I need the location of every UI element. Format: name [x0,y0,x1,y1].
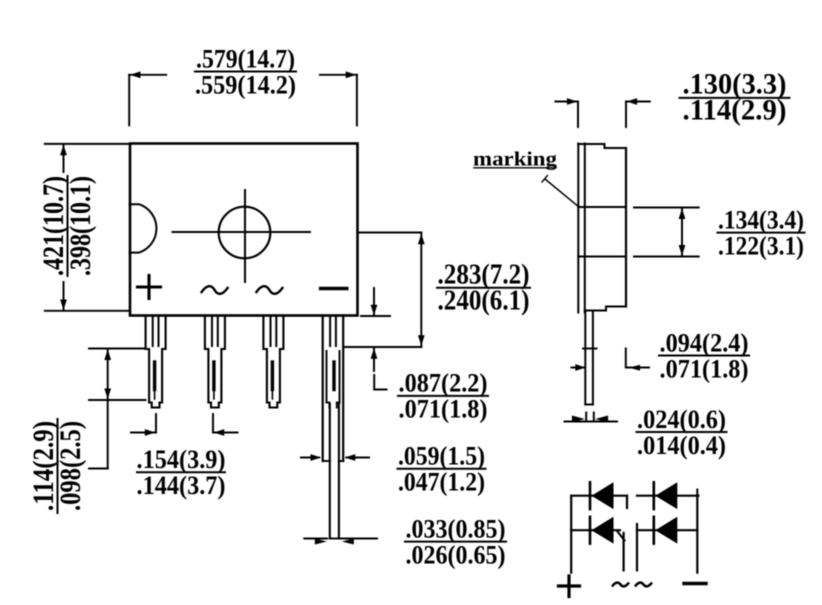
svg-text:.122(3.1): .122(3.1) [718,230,804,260]
svg-text:.026(0.65): .026(0.65) [406,539,506,569]
svg-text:.144(3.7): .144(3.7) [137,470,226,500]
svg-text:.098(2.5): .098(2.5) [54,421,87,511]
svg-text:.114(2.9): .114(2.9) [683,95,787,127]
svg-text:.398(10.1): .398(10.1) [64,176,97,276]
svg-text:.071(1.8): .071(1.8) [660,353,749,383]
svg-text:.047(1.2): .047(1.2) [398,467,485,497]
svg-text:.071(1.8): .071(1.8) [399,394,488,424]
svg-text:.014(0.4): .014(0.4) [637,430,726,460]
svg-text:.240(6.1): .240(6.1) [438,286,530,317]
svg-text:.559(14.2): .559(14.2) [195,69,296,99]
